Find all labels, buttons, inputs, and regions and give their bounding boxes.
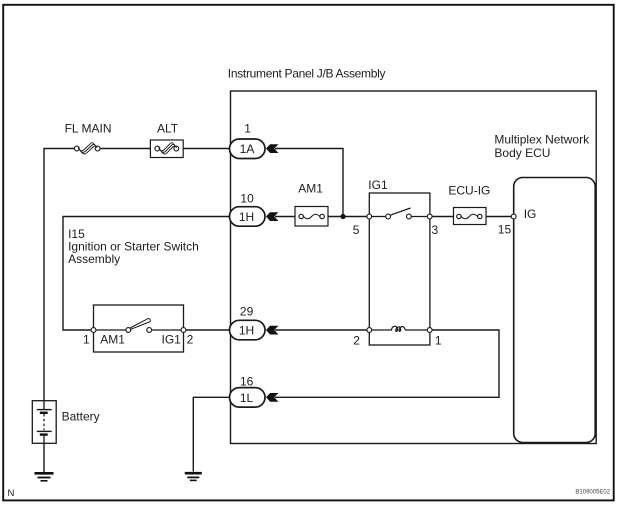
- wire battery to ground: [43, 443, 45, 472]
- svg-text:IG1: IG1: [368, 178, 388, 192]
- svg-text:AM1: AM1: [100, 332, 125, 346]
- svg-text:Body ECU: Body ECU: [494, 146, 550, 160]
- wire 1L to ground: [193, 397, 229, 471]
- svg-text:16: 16: [240, 374, 254, 388]
- svg-text:B109005E02: B109005E02: [575, 490, 610, 496]
- fuse ECU-IG: [454, 208, 487, 225]
- svg-text:3: 3: [432, 223, 439, 237]
- svg-text:10: 10: [240, 191, 254, 205]
- wire coil pin1 to 1L: [275, 330, 499, 397]
- connector pill 1H pin 29: [230, 320, 266, 340]
- relay IG1 coil: [367, 326, 432, 332]
- switch I15 box Ignition or Starter Switch Assembly: [94, 305, 184, 352]
- svg-text:29: 29: [240, 304, 254, 318]
- ground right: [185, 473, 202, 480]
- svg-text:IG1: IG1: [162, 332, 182, 346]
- svg-text:IG: IG: [524, 207, 537, 221]
- wire 29 to IG1 coil pin 2: [275, 329, 367, 331]
- fuse AM1: [295, 207, 328, 227]
- svg-text:1: 1: [435, 334, 442, 348]
- svg-text:1: 1: [244, 122, 251, 136]
- wire IG1 to ECU-IG: [432, 216, 455, 218]
- relay IG1 contact terminals: [367, 208, 432, 219]
- connector pill 1A: [230, 139, 266, 159]
- svg-text:1H: 1H: [239, 210, 254, 224]
- svg-text:Battery: Battery: [62, 409, 100, 423]
- svg-text:Assembly: Assembly: [68, 252, 120, 266]
- connector pill 1L pin 16: [230, 388, 266, 408]
- wire switch to 29 pill: [186, 329, 230, 331]
- arrow into 1A: [266, 144, 279, 153]
- wire ALT to connector 1A: [183, 148, 231, 150]
- svg-text:N: N: [8, 488, 15, 499]
- ECU terminal 15: [511, 214, 516, 219]
- svg-text:1L: 1L: [240, 391, 254, 405]
- arrow into 29: [266, 326, 279, 335]
- switch I15 contacts: [91, 319, 186, 333]
- wire ECU-IG to ECU pin 15: [486, 216, 512, 218]
- ECU U1 Multiplex Network Body ECU box: [514, 178, 596, 443]
- svg-text:2: 2: [187, 332, 194, 346]
- arrow into 1L: [266, 393, 279, 402]
- svg-text:2: 2: [353, 334, 360, 348]
- wire 1A to junction riser: [275, 149, 343, 217]
- fusible link FL MAIN: [74, 143, 100, 154]
- svg-text:FL MAIN: FL MAIN: [65, 122, 112, 136]
- svg-text:1: 1: [83, 332, 90, 346]
- svg-text:AM1: AM1: [298, 181, 323, 195]
- svg-text:Multiplex Network: Multiplex Network: [494, 133, 590, 147]
- Instrument Panel J/B Assembly box: [231, 91, 597, 444]
- fusible link ALT: [150, 140, 183, 158]
- svg-text:Instrument Panel J/B Assembly: Instrument Panel J/B Assembly: [228, 66, 386, 80]
- svg-text:1H: 1H: [239, 324, 254, 338]
- ground left: [35, 473, 54, 481]
- relay IG1 box: [369, 193, 430, 345]
- arrow into 1H: [266, 212, 279, 221]
- junction node: [340, 214, 345, 219]
- wire AM1 to IG1 relay with junction: [328, 216, 369, 218]
- svg-text:ALT: ALT: [157, 122, 179, 136]
- battery B1: [32, 401, 56, 444]
- svg-text:ECU-IG: ECU-IG: [448, 183, 490, 197]
- connector pill 1H pin 10: [230, 207, 266, 227]
- svg-text:1A: 1A: [240, 142, 255, 156]
- wire battery positive riser: [44, 149, 75, 401]
- wire 1H(10) to ignition switch: [63, 217, 230, 331]
- svg-text:15: 15: [498, 223, 512, 237]
- wire 1H to AM1 fuse: [275, 216, 300, 218]
- svg-text:5: 5: [353, 223, 360, 237]
- wire FL MAIN to ALT: [100, 148, 155, 150]
